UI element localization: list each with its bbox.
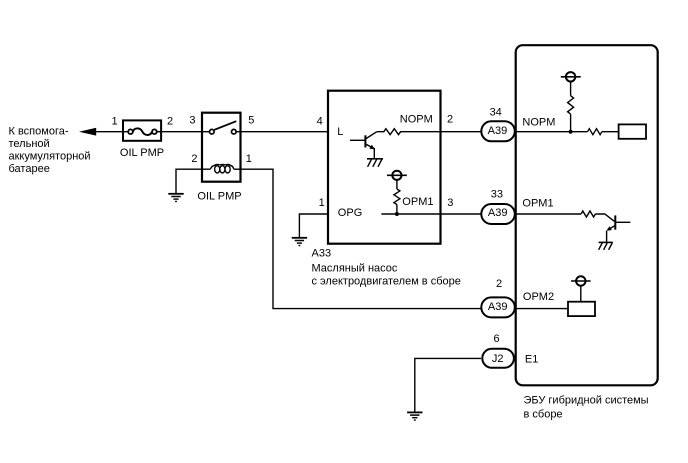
- wire A33 pin3 to connector A39: [441, 213, 481, 215]
- wire resistor to transistor base: [595, 214, 614, 221]
- svg-text:1: 1: [246, 153, 252, 165]
- svg-text:6: 6: [493, 333, 499, 345]
- svg-text:2: 2: [496, 278, 502, 290]
- chassis ground (ECU transistor emitter): [599, 242, 613, 249]
- svg-text:E1: E1: [525, 354, 538, 366]
- svg-text:OIL PMP: OIL PMP: [197, 190, 241, 202]
- svg-text:A33: A33: [312, 247, 332, 259]
- relay OIL PMP box: [202, 113, 241, 182]
- ground (A33 OPG): [292, 238, 307, 246]
- svg-text:OPM1: OPM1: [522, 198, 553, 210]
- input block (ECU NOPM): [619, 124, 646, 138]
- svg-text:NOPM: NOPM: [522, 117, 555, 129]
- svg-text:OPG: OPG: [338, 207, 362, 219]
- svg-text:тельной: тельной: [9, 138, 50, 150]
- connector A39 pin 34 (oval): [481, 121, 515, 141]
- arrow to auxiliary battery: [79, 128, 96, 136]
- wire relay pin1 to A39 connector (OPM2 run): [241, 169, 481, 308]
- svg-text:4: 4: [317, 115, 323, 127]
- svg-text:в сборе: в сборе: [524, 409, 563, 421]
- power symbol (ECU OPM2 pull-up): [571, 276, 591, 285]
- svg-text:3: 3: [189, 115, 195, 127]
- svg-text:Масляный насос: Масляный насос: [312, 262, 398, 274]
- wire resistor to input block: [602, 131, 619, 133]
- resistor OPM1 (vertical, inside A33): [394, 189, 400, 204]
- ECU caption: [524, 395, 649, 421]
- power symbol (ECU NOPM pull-up): [561, 72, 581, 81]
- transistor Q1 (inside A33): [350, 132, 377, 159]
- svg-text:OIL PMP: OIL PMP: [120, 147, 164, 159]
- svg-text:аккумуляторной: аккумуляторной: [9, 151, 91, 163]
- transistor Q2 (inside ECU): [606, 215, 630, 242]
- wire J2 to ground: [415, 358, 481, 412]
- ECU box (hybrid system ECU): [516, 45, 658, 385]
- resistor (ECU OPM1 series): [581, 211, 595, 217]
- junction (OPG line): [395, 212, 399, 216]
- annotation: to auxiliary battery (Russian text): [9, 126, 91, 176]
- svg-text:К вспомога-: К вспомога-: [9, 126, 69, 138]
- svg-text:2: 2: [191, 153, 197, 165]
- svg-text:ЭБУ гибридной системы: ЭБУ гибридной системы: [524, 395, 649, 407]
- wire A33 pin1 to ground: [299, 214, 328, 238]
- svg-text:батарее: батарее: [9, 163, 50, 175]
- wire relay pin5 to A33 pin4: [241, 131, 329, 133]
- ECU OPM1 internal wire: [516, 213, 581, 215]
- relay switch contacts: [202, 129, 241, 134]
- svg-text:OPM1: OPM1: [402, 196, 433, 208]
- wire relay pin2 to ground: [176, 169, 202, 194]
- ECU OPM2 internal wire: [516, 308, 568, 310]
- wire power to pull-up resistor: [570, 82, 572, 96]
- resistor (ECU NOPM series): [588, 129, 602, 135]
- svg-text:A39: A39: [488, 207, 508, 219]
- svg-text:L: L: [337, 126, 343, 138]
- fuse OIL PMP: [123, 120, 161, 140]
- svg-text:OPM2: OPM2: [523, 291, 554, 303]
- svg-text:1: 1: [111, 115, 117, 127]
- svg-text:1: 1: [319, 197, 325, 209]
- wire arrow to fuse: [95, 131, 123, 133]
- svg-text:A39: A39: [488, 125, 508, 137]
- relay switch blade: [214, 121, 236, 130]
- chassis ground (A33 transistor emitter): [367, 159, 383, 167]
- wire power to resistor: [396, 180, 398, 189]
- svg-text:3: 3: [447, 197, 453, 209]
- resistor (A33 NOPM line): [377, 129, 441, 135]
- connector A39 pin 33 (oval): [481, 204, 515, 224]
- connector J2 pin 6 (oval): [482, 349, 514, 368]
- wire A33 pin2 to connector A39: [441, 131, 481, 133]
- OPG internal line: [381, 213, 440, 215]
- A33 caption: [312, 247, 461, 287]
- svg-text:34: 34: [490, 106, 502, 118]
- svg-text:с электродвигателем в сборе: с электродвигателем в сборе: [312, 275, 461, 287]
- svg-text:5: 5: [248, 115, 254, 127]
- svg-text:NOPM: NOPM: [400, 113, 433, 125]
- wire power to input block: [580, 286, 582, 302]
- ground (relay coil): [168, 194, 183, 202]
- svg-text:J2: J2: [492, 353, 504, 365]
- svg-text:33: 33: [491, 189, 503, 201]
- power symbol (inside A33): [387, 171, 407, 180]
- input block (ECU OPM2): [568, 302, 595, 316]
- svg-text:2: 2: [167, 115, 173, 127]
- resistor (ECU NOPM pull-up): [568, 96, 574, 114]
- connector A39 pin 2 (oval): [481, 297, 515, 317]
- wire resistor to OPG line: [396, 205, 398, 215]
- wire resistor to NOPM line: [570, 114, 572, 132]
- ECU NOPM internal wire: [516, 131, 588, 133]
- junction (ECU NOPM): [569, 130, 573, 134]
- wire fuse to relay: [161, 131, 202, 133]
- ground (E1): [407, 412, 422, 420]
- relay coil: [202, 164, 241, 172]
- svg-text:A39: A39: [488, 301, 508, 313]
- svg-text:2: 2: [447, 113, 453, 125]
- oil pump assembly A33 box: [328, 91, 441, 244]
